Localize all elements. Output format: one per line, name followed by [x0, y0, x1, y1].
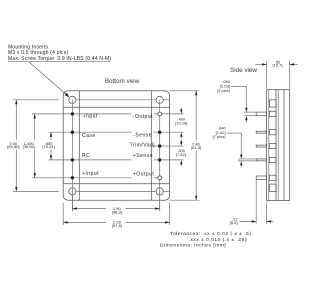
side pin 3 [256, 143, 276, 148]
svg-text:(2 plcs): (2 plcs) [217, 88, 231, 93]
ext line hole row bottom [13, 190, 59, 192]
side view body [267, 90, 290, 201]
dim .080 label [217, 79, 256, 122]
dim .300 [176, 140, 186, 167]
svg-text:+Input: +Input [82, 171, 99, 177]
band line top bottom [63, 106, 169, 108]
side pin 2 [256, 130, 276, 135]
mounting hole bottom right [156, 188, 163, 195]
mounting hole top left [69, 96, 76, 103]
pin trim [158, 144, 161, 147]
dim .22 bottom [230, 180, 274, 225]
svg-text:RC: RC [82, 153, 90, 159]
svg-text:[15,24]: [15,24] [42, 144, 54, 149]
dim .040 label [212, 126, 256, 168]
svg-text:[50,80]: [50,80] [7, 144, 19, 149]
row line +input/+output [32, 177, 131, 179]
leader to mounting hole [29, 62, 69, 97]
dim 2.28 [63, 203, 169, 228]
row line case/-sense [49, 131, 132, 133]
pin -sense [158, 131, 161, 134]
row line rc/+sense [49, 159, 132, 161]
side insert top [270, 100, 276, 107]
svg-text:-Sense: -Sense [133, 132, 152, 138]
svg-text:[61,0]: [61,0] [191, 145, 201, 150]
dim 1.90 [72, 196, 159, 215]
flange inner line right [150, 91, 152, 200]
svg-text:-Input: -Input [82, 114, 98, 120]
svg-text:+Sense: +Sense [133, 153, 153, 159]
pin +input [71, 176, 74, 179]
svg-text:Case: Case [82, 133, 96, 139]
dim 2.40 [170, 91, 201, 200]
svg-text:Trim/Vadj: Trim/Vadj [130, 143, 155, 149]
dim 1.400 line [23, 114, 36, 178]
bottom view body outline [63, 91, 169, 200]
left pin column centerline [71, 100, 73, 211]
svg-text:Bottom view: Bottom view [105, 78, 140, 85]
svg-text:.xxx ± 0.010 (.x ± .25): .xxx ± 0.010 (.x ± .25) [189, 237, 247, 243]
svg-text:[10,16]: [10,16] [175, 120, 187, 125]
svg-text:[12,7]: [12,7] [272, 63, 282, 68]
ext line hole row top [13, 99, 59, 101]
svg-text:Max. Screw Torque: 3.9 IN-LBS: Max. Screw Torque: 3.9 IN-LBS (0.44 N-M) [8, 56, 111, 62]
svg-text:[7,62]: [7,62] [176, 152, 186, 157]
pin -output ring [158, 112, 162, 116]
pin -input [71, 112, 74, 115]
svg-text:Tolerances: .xx ± 0.02 (.x ± .: Tolerances: .xx ± 0.02 (.x ± .5) [170, 231, 251, 237]
flange inner line left [78, 91, 80, 200]
pin +output ring [158, 176, 162, 180]
side insert bottom [270, 184, 276, 191]
svg-text:[48,3]: [48,3] [112, 209, 122, 214]
pin rc [71, 158, 74, 161]
band line bottom top [63, 183, 169, 185]
pin case [71, 131, 74, 134]
dim 2.00 line [7, 100, 19, 192]
mounting hole top right [156, 96, 163, 103]
svg-text:Side view: Side view [230, 67, 257, 74]
pin +sense [158, 158, 161, 161]
right pin column centerline [159, 100, 161, 211]
note mounting inserts [8, 44, 111, 62]
side pin 5 (+out row, .080) [256, 175, 276, 180]
mounting hole bottom left [69, 188, 76, 195]
svg-text:+Output: +Output [133, 171, 155, 177]
dim .600 line [42, 132, 54, 160]
band line top holes row [76, 99, 156, 101]
dim .50 top [256, 60, 298, 89]
tolerances block [160, 231, 251, 248]
row line -input/-output [32, 113, 131, 115]
svg-text:[5,6]: [5,6] [230, 220, 238, 225]
band line bottom holes row [76, 190, 156, 192]
svg-text:(7 plcs): (7 plcs) [212, 134, 226, 139]
svg-text:[35,56]: [35,56] [23, 144, 35, 149]
svg-text:Dimensions: inches [mm]: Dimensions: inches [mm] [160, 242, 226, 248]
side pin 4 [256, 157, 276, 162]
side pin 1 (-out row, .080) [256, 111, 276, 116]
svg-text:[57,9]: [57,9] [112, 223, 122, 228]
dim .400 [175, 108, 187, 139]
row line trim [153, 145, 184, 147]
svg-text:-Output: -Output [133, 114, 153, 120]
